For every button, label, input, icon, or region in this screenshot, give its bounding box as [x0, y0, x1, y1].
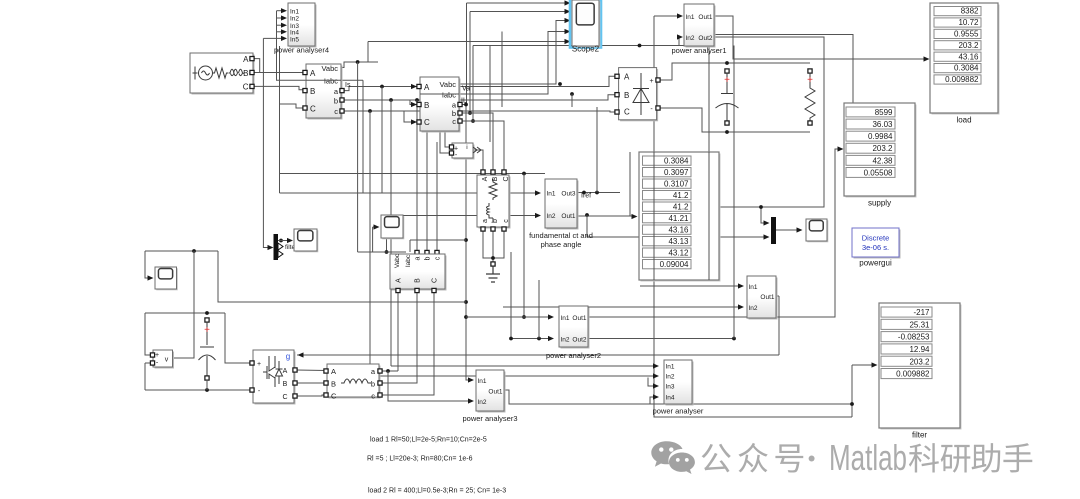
arrowhead mux in1 — [764, 220, 770, 225]
wire pa4 In2 stub — [277, 17, 284, 19]
arrowhead Scope2 in1 — [565, 0, 571, 5]
svg-text:power analyser2: power analyser2 — [546, 351, 601, 360]
wire dc rail bottom — [145, 389, 252, 391]
port meas3 A — [396, 288, 400, 292]
svg-text:B: B — [243, 69, 248, 78]
block three-phase source — [190, 53, 255, 95]
junction vm2 feed — [443, 98, 447, 102]
wire igbt C — [296, 395, 326, 396]
wire riser 473 — [472, 46, 474, 122]
junction out2 — [732, 337, 736, 341]
svg-text:43.16: 43.16 — [958, 52, 979, 61]
svg-text:B: B — [331, 380, 336, 389]
arrowhead blk2 In2 — [738, 304, 744, 309]
scope scope left — [155, 267, 178, 290]
block voltage measurement — [153, 350, 174, 369]
svg-text:In1: In1 — [686, 14, 695, 21]
port cap2 bottom — [205, 376, 209, 380]
wire to v meas + — [145, 313, 152, 355]
arrowhead pa In4 — [653, 394, 659, 399]
svg-text:0.3107: 0.3107 — [664, 179, 689, 188]
svg-text:In2: In2 — [666, 374, 675, 381]
wire pa3 Out1 long — [504, 390, 852, 404]
block power analyser1 — [684, 4, 716, 48]
port ind c — [378, 393, 382, 397]
wire into filter display — [852, 364, 873, 366]
junction ground — [491, 256, 495, 260]
svg-text:Iabc: Iabc — [405, 254, 412, 267]
arrowhead pa4 In1 — [281, 8, 287, 13]
watermark text — [702, 444, 731, 473]
wire riser 539 — [538, 280, 540, 339]
svg-text:c: c — [435, 256, 442, 260]
arrowhead demux input — [268, 245, 274, 250]
display supply — [844, 103, 917, 198]
svg-text:C: C — [331, 392, 337, 401]
wire dc rail top — [145, 312, 225, 314]
wire phase a to rectifier A — [341, 76, 615, 90]
wire source A — [251, 59, 260, 73]
svg-text:In1: In1 — [478, 378, 487, 385]
svg-text:42.38: 42.38 — [872, 156, 893, 165]
wire texture 630 — [629, 152, 631, 216]
arrowhead pa3 In1 — [468, 377, 474, 382]
wire pa4 In5 — [263, 37, 283, 39]
port meas3 a — [415, 250, 419, 254]
svg-text:0.009882: 0.009882 — [896, 370, 930, 379]
svg-text:0.9984: 0.9984 — [868, 132, 893, 141]
junction meas3 riser a — [415, 98, 419, 102]
port ind C — [324, 393, 328, 397]
svg-text:C: C — [503, 176, 510, 181]
port ground — [491, 262, 495, 266]
svg-text:In2: In2 — [478, 399, 487, 406]
svg-text:load 1 Rl=50;Ll=2e-5;Rn=10;Cn=: load 1 Rl=50;Ll=2e-5;Rn=10;Cn=2e-5 — [370, 437, 487, 444]
wire down and right long — [218, 251, 466, 302]
port rect A — [615, 74, 619, 78]
junction meas3 Iabc — [385, 250, 389, 254]
wire transformer b to ground — [492, 229, 494, 262]
block power analyser2 — [559, 306, 590, 349]
wire pa2 In1 — [466, 316, 550, 318]
wire pa4 In1 stub — [277, 10, 284, 12]
junction — [522, 172, 526, 176]
port igbt B — [293, 381, 297, 385]
display mid display — [639, 152, 721, 282]
wire load phase c to transformer C — [459, 121, 504, 171]
wire elbow to meas2 C — [404, 111, 417, 122]
scope Scope2 selected — [570, 0, 601, 48]
port meas1 B — [303, 89, 307, 93]
svg-text:power analyser3: power analyser3 — [462, 414, 517, 423]
wire riser in2 — [469, 12, 471, 114]
wire pa4 In4 stub — [277, 31, 284, 33]
wire riser in1 — [466, 3, 468, 105]
arrowhead fund In2 — [535, 213, 541, 218]
block diode rectifier — [619, 68, 659, 122]
svg-text:0.09004: 0.09004 — [660, 260, 689, 269]
demux filter — [274, 234, 279, 260]
port source B — [250, 70, 254, 74]
arrowhead meas2 C — [411, 119, 417, 124]
arrowhead scopeB — [148, 275, 154, 280]
svg-text:Out2: Out2 — [698, 35, 712, 42]
svg-text:3e-06 s.: 3e-06 s. — [862, 243, 889, 252]
svg-text:41.2: 41.2 — [673, 191, 689, 200]
wire riser meas3 a — [416, 100, 418, 252]
port xfmr A — [481, 170, 485, 174]
svg-text:C: C — [310, 105, 316, 114]
svg-text:Vabc: Vabc — [321, 64, 338, 73]
svg-text:A: A — [624, 73, 630, 82]
svg-text:powergui: powergui — [859, 259, 892, 268]
svg-text:Discrete: Discrete — [862, 234, 890, 243]
svg-text:Scope2: Scope2 — [572, 45, 600, 54]
svg-text:C: C — [432, 278, 439, 283]
svg-text:power analyser4: power analyser4 — [274, 46, 329, 55]
wire load phase b to transformer B — [459, 113, 493, 171]
wire pa2 Out1 to supply display — [588, 149, 840, 317]
wire Scope2 in2 — [470, 11, 567, 13]
svg-text:+: + — [649, 78, 653, 85]
wire fund Out1 to display — [577, 215, 633, 217]
port rect B — [615, 93, 619, 97]
junction meas3 riser b — [425, 109, 429, 113]
svg-text:In2: In2 — [290, 16, 299, 23]
junction phase b — [389, 98, 393, 102]
arrowhead pa2 In1 — [548, 314, 554, 319]
port v + — [150, 353, 154, 357]
arrowhead blk2 In1 — [738, 283, 744, 288]
svg-text:In2: In2 — [686, 35, 695, 42]
arrowhead scopeD — [797, 227, 803, 232]
diode symbol — [633, 73, 649, 115]
wire scope riser — [372, 227, 374, 252]
arrowhead pa1 In1 — [677, 13, 683, 18]
arrowhead pa In2 — [653, 373, 659, 378]
wire over meas2 — [420, 93, 459, 95]
port meas1 b — [340, 98, 344, 102]
svg-text:In1: In1 — [290, 9, 299, 16]
junction — [509, 337, 513, 341]
wire texture 490 — [489, 46, 491, 143]
block meas3 — [390, 254, 447, 291]
port igbt A — [293, 368, 297, 372]
port meas1 C — [303, 106, 307, 110]
wire pa In3 elbow — [648, 378, 655, 387]
wire pa4 In3 stub — [277, 24, 284, 26]
port meas2 b — [458, 111, 462, 115]
wire riser in5 — [367, 42, 369, 63]
wire bus2 down — [279, 46, 281, 193]
svg-text:A: A — [331, 367, 336, 376]
svg-text:0.9555: 0.9555 — [954, 30, 979, 39]
wire Is to fundamental In1 — [280, 192, 538, 194]
svg-text:b: b — [334, 96, 338, 105]
port ind b — [378, 381, 382, 385]
svg-text:203.2: 203.2 — [909, 357, 930, 366]
svg-text:Vabc: Vabc — [394, 253, 401, 268]
arrowhead Scope2 in3 — [565, 18, 571, 23]
arrowhead pa4 In2 — [281, 15, 287, 20]
wire to pa3 In2 — [388, 371, 470, 401]
watermark wechat icon — [651, 441, 695, 474]
junction cap top — [725, 61, 729, 65]
wire elbow to meas2 B — [410, 100, 417, 105]
svg-text:i: i — [466, 144, 467, 151]
junction cap2 — [205, 311, 209, 315]
wire ind c up to meas3 C — [379, 291, 434, 395]
svg-text:Is: Is — [345, 82, 351, 89]
svg-text:A: A — [424, 83, 430, 92]
port source A — [250, 57, 254, 61]
svg-text:Iref: Iref — [581, 193, 591, 200]
port meas3 b — [425, 250, 429, 254]
wire Vabc tap down to meas3 — [357, 62, 359, 252]
svg-text:+: + — [204, 325, 210, 336]
arrowhead fund In1 — [535, 190, 541, 195]
svg-text:power analyser1: power analyser1 — [671, 46, 726, 55]
port xfmr a — [481, 227, 485, 231]
svg-text:203.2: 203.2 — [958, 41, 979, 50]
port ind B — [324, 381, 328, 385]
svg-text:In1: In1 — [561, 315, 570, 322]
wire meas2 Iabc to Scope2 in4 — [459, 32, 566, 95]
svg-text:Out1: Out1 — [698, 14, 712, 21]
block controller block — [747, 276, 778, 320]
svg-text:fundamental ct and: fundamental ct and — [529, 231, 593, 240]
wire rectifier + rail — [658, 63, 810, 80]
svg-text:Iabc: Iabc — [324, 77, 338, 86]
port vm2 + — [449, 145, 453, 149]
port meas2 C — [417, 120, 421, 124]
svg-text:Vabc: Vabc — [439, 80, 456, 89]
svg-text:203.2: 203.2 — [872, 144, 893, 153]
svg-text:C: C — [424, 118, 430, 127]
wire load phase a down to power analyser3 In1 — [466, 105, 470, 381]
svg-text:In2: In2 — [749, 305, 758, 312]
svg-text:41.2: 41.2 — [673, 202, 689, 211]
wire to scope — [373, 226, 376, 228]
arrowhead Scope2 in5 — [565, 39, 571, 44]
port res bottom — [808, 121, 812, 125]
wire phase c tap down to power analyser In2 — [369, 111, 371, 376]
svg-text:Va: Va — [462, 86, 470, 93]
wire Iref riser — [596, 107, 598, 193]
port meas2 c — [458, 119, 462, 123]
wire riser meas3 c — [436, 142, 438, 252]
svg-text:8382: 8382 — [961, 7, 979, 16]
svg-text:Out1: Out1 — [488, 389, 502, 396]
junction — [464, 300, 468, 304]
block current measurement — [452, 143, 475, 160]
svg-text:B: B — [424, 101, 429, 110]
wire ind b up to meas3 B — [379, 291, 417, 383]
wire stub b2 a — [459, 104, 466, 106]
svg-text:c: c — [503, 219, 510, 223]
wire igbt B — [296, 382, 326, 384]
svg-text:41.21: 41.21 — [668, 214, 689, 223]
arrowhead pa3 In2 — [468, 398, 474, 403]
wire bus down to Iabc line — [277, 11, 364, 81]
svg-text:43.16: 43.16 — [668, 225, 689, 234]
junction Va — [558, 82, 562, 86]
port res top — [808, 69, 812, 73]
svg-text:Rl =5 ; Ll=20e-3; Rn=80;Cn= 1e: Rl =5 ; Ll=20e-3; Rn=80;Cn= 1e-6 — [367, 456, 473, 463]
wire meas1 Vabc staple — [341, 62, 378, 68]
wire igbt A — [296, 369, 326, 372]
svg-text:supply: supply — [868, 199, 891, 208]
block power analyser3 — [476, 370, 506, 413]
svg-text:-0.08253: -0.08253 — [898, 333, 930, 342]
wire to scopeB — [145, 251, 150, 278]
port xfmr C — [502, 170, 506, 174]
wire to meas1 C — [280, 104, 304, 108]
junction Iref2 — [595, 191, 599, 195]
junction b stub — [468, 111, 472, 115]
wire Scope2 in1 — [467, 2, 568, 4]
port meas2 a — [458, 102, 462, 106]
arrowhead display mid — [632, 214, 638, 219]
wire blk2 In1 — [640, 285, 740, 287]
junction Vabc tap — [356, 60, 360, 64]
svg-text:IL: IL — [461, 98, 467, 105]
wire meas2 Vabc to Scope2 in3 — [459, 21, 566, 85]
wire to igbt + — [225, 313, 252, 363]
arrowhead filter display — [872, 362, 878, 367]
junction c stub — [471, 119, 475, 123]
svg-text:0.009882: 0.009882 — [945, 75, 979, 84]
wire source B to meas1 A — [251, 72, 303, 74]
svg-text:+: + — [257, 361, 261, 368]
arrowhead load display — [924, 56, 930, 61]
svg-text:In2: In2 — [547, 213, 556, 220]
wire texture 734 — [733, 46, 735, 339]
wire In4 elbow — [650, 397, 655, 404]
junction demux out — [279, 239, 283, 243]
wire Iref — [577, 192, 620, 194]
svg-text:filter: filter — [912, 431, 927, 440]
port meas3 c — [435, 250, 439, 254]
junction phase a riser — [464, 103, 468, 107]
wire phase b to rectifier B — [341, 95, 615, 100]
wire riser pa2 In2 — [510, 252, 512, 339]
svg-text:In1: In1 — [666, 364, 675, 371]
arrowhead pa In3 — [653, 383, 659, 388]
port xfmr b — [491, 227, 495, 231]
port rect - — [656, 106, 660, 110]
port meas2 B — [417, 102, 421, 106]
wire pa2 In2 — [511, 338, 550, 340]
junction — [522, 315, 526, 319]
arrowhead pa4 In4 — [281, 29, 287, 34]
wire to fundamental In2 — [387, 215, 538, 217]
wire long under scope2 — [473, 45, 709, 47]
svg-text:In2: In2 — [561, 337, 570, 344]
arrowhead Scope2 in4 — [565, 29, 571, 34]
junction filter riser — [850, 402, 854, 406]
svg-text:a: a — [415, 256, 422, 260]
svg-text:+: + — [724, 75, 730, 86]
port rect + — [656, 78, 660, 82]
svg-text:Out2: Out2 — [572, 337, 586, 344]
wire v meas out up — [173, 251, 195, 358]
wire rectifier - rail — [658, 108, 810, 132]
wire v meas - down — [144, 363, 146, 390]
svg-text:load 2 Rl = 400;Ll=0.5e-3;Rn =: load 2 Rl = 400;Ll=0.5e-3;Rn = 25; Cn= 1… — [368, 488, 506, 495]
block three-phase VI measurement 2 — [420, 77, 461, 133]
wire cap2 to rail — [206, 380, 208, 390]
port xfmr c — [502, 227, 506, 231]
port cap2 top — [205, 318, 209, 322]
wire down to current meas + — [445, 100, 451, 147]
wire overlay vertical 654 — [653, 152, 655, 280]
wire to mux in2 — [587, 215, 766, 237]
wire top left — [145, 250, 218, 252]
wire ind a — [379, 370, 398, 372]
wire riser to mux in1 — [761, 207, 766, 223]
wire source C to meas1 B — [251, 86, 303, 89]
wire pa1 Out branch to supply — [714, 35, 853, 104]
junction IL — [570, 92, 574, 96]
junction cap bottom — [725, 130, 729, 134]
arrowhead pa4 In5 — [281, 36, 287, 41]
svg-text:Matlab: Matlab — [829, 437, 907, 478]
port meas1 a — [340, 89, 344, 93]
wire gate long — [297, 354, 779, 356]
svg-text:v: v — [165, 357, 169, 364]
wire down to current meas - — [440, 111, 451, 153]
svg-text:+: + — [807, 75, 813, 86]
wire overlay vertical 709 — [708, 152, 710, 280]
svg-text:In3: In3 — [666, 384, 675, 391]
junction — [537, 337, 541, 341]
wire phase b tap down to power analyser In1 — [390, 100, 392, 366]
mux right — [771, 217, 776, 244]
wire pa In2 — [370, 375, 655, 377]
junction — [464, 315, 468, 319]
port cap bottom — [725, 121, 729, 125]
svg-text:B: B — [624, 91, 629, 100]
scope scope right — [806, 219, 828, 242]
port source C — [250, 84, 254, 88]
arrowhead gate — [298, 352, 304, 357]
wire current meas out to transformer A — [474, 150, 483, 171]
block three-phase VI measurement 1 — [306, 64, 343, 120]
wire pa1 Out1 to load display — [714, 16, 926, 59]
wire pa In1 — [391, 365, 655, 367]
arrowhead scopeA — [287, 238, 293, 243]
arrowhead pa In1 — [653, 363, 659, 368]
wire meas3 top — [358, 251, 406, 253]
arrowhead pa2 In2 — [548, 336, 554, 341]
arrowhead meas2 A — [411, 84, 417, 89]
svg-text:8599: 8599 — [875, 108, 893, 117]
scope scope center — [381, 215, 404, 239]
svg-text:Iabc: Iabc — [442, 91, 456, 100]
display filter — [879, 303, 962, 430]
svg-text:C: C — [624, 108, 630, 117]
arrowhead pa4 In3 — [281, 23, 287, 28]
port rect C — [615, 110, 619, 114]
wire blk2 out stub — [776, 295, 779, 297]
svg-text:0.3084: 0.3084 — [664, 156, 689, 165]
igbt icon — [263, 356, 283, 387]
svg-text:12.94: 12.94 — [909, 345, 930, 354]
block rl branch rotated — [477, 175, 511, 229]
wire mux to scopeD — [776, 229, 799, 231]
wire meas3 elbow2 — [409, 240, 411, 252]
